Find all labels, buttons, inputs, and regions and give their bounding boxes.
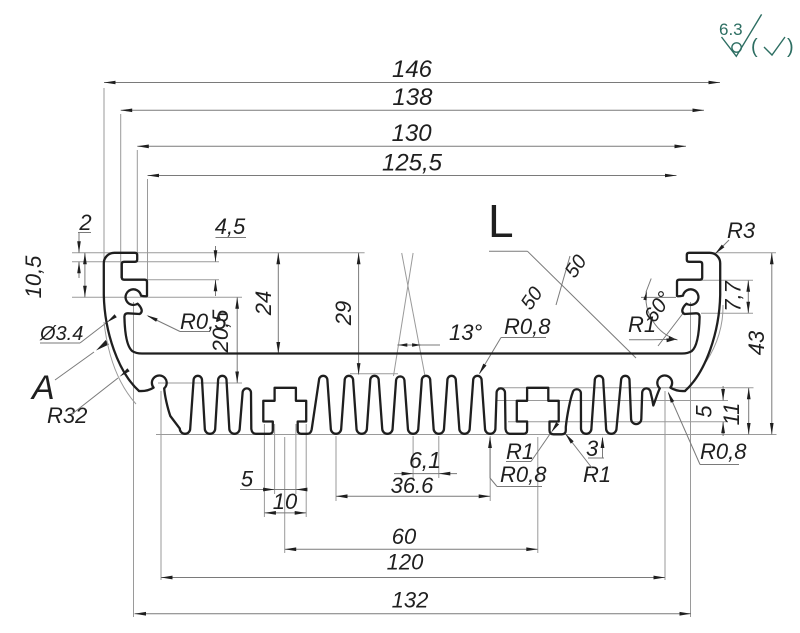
dimension 60 — [285, 524, 538, 551]
heatsink profile body (top plate, side walls, screw ports) — [104, 253, 720, 391]
dimension 20,5 — [208, 297, 239, 383]
svg-text:132: 132 — [392, 588, 429, 613]
dimension 132 — [135, 588, 692, 616]
svg-text:36.6: 36.6 — [391, 473, 435, 498]
svg-text:R0,8: R0,8 — [500, 462, 547, 487]
svg-text:6,1: 6,1 — [409, 447, 441, 473]
svg-text:24: 24 — [251, 291, 276, 316]
svg-text:125,5: 125,5 — [382, 150, 443, 177]
svg-text:R1: R1 — [628, 312, 656, 337]
svg-text:3: 3 — [586, 436, 599, 461]
dimension 10,5 — [21, 253, 87, 299]
label R32 — [47, 368, 130, 428]
svg-text:10,5: 10,5 — [21, 255, 46, 299]
thin arc R32 reference left — [104, 322, 136, 404]
svg-text:5: 5 — [241, 467, 254, 492]
dimension 125,5 — [148, 150, 677, 178]
dimension 5 right — [692, 386, 726, 436]
label 3 — [586, 436, 604, 461]
svg-text:5: 5 — [692, 405, 717, 418]
surface finish symbol 6.3 — [719, 14, 794, 58]
dimension 6,1 — [394, 447, 457, 476]
svg-text:146: 146 — [392, 56, 433, 83]
dimension 7,7 — [721, 280, 751, 313]
extension lines horizontal left — [72, 252, 365, 254]
svg-text:120: 120 — [387, 550, 424, 575]
svg-text:43: 43 — [744, 330, 769, 355]
label R1 foot right — [565, 433, 611, 487]
svg-text:2: 2 — [78, 210, 91, 235]
svg-text:Ø3.4: Ø3.4 — [39, 323, 83, 345]
label L with 50/50 leader — [488, 195, 636, 358]
svg-text:L: L — [488, 195, 514, 247]
svg-text:60: 60 — [392, 524, 417, 549]
svg-text:A: A — [30, 369, 55, 407]
heatsink fins serpentine with T-slot bosses — [139, 375, 685, 434]
svg-text:): ) — [787, 36, 794, 58]
dimension 120 — [161, 550, 665, 580]
dimension 10 — [264, 489, 306, 515]
label A (view arrow) — [30, 340, 109, 407]
thin arc R32 reference right — [706, 305, 723, 362]
svg-text:138: 138 — [392, 84, 433, 111]
extension lines horizontal right — [687, 252, 776, 254]
svg-text:R0,8: R0,8 — [504, 314, 551, 339]
svg-text:130: 130 — [392, 120, 433, 147]
dimension 11 — [719, 388, 751, 435]
label R0,8 bottom center — [488, 437, 547, 488]
dimension 29 — [331, 253, 361, 375]
dimension 5 bottom — [240, 467, 307, 492]
svg-text:13°: 13° — [449, 320, 482, 345]
dimension 43 — [744, 253, 774, 435]
svg-text:R1: R1 — [506, 439, 534, 464]
svg-text:29: 29 — [331, 301, 356, 326]
svg-text:R3: R3 — [727, 218, 756, 243]
extension lines bottom verticals — [133, 302, 135, 617]
svg-text:4,5: 4,5 — [215, 214, 246, 239]
dimension 146 — [104, 56, 720, 84]
svg-text:R1: R1 — [583, 462, 611, 487]
label R1 foot left — [506, 422, 559, 464]
dimension 36.6 — [336, 473, 490, 498]
label R0,5 — [147, 309, 228, 334]
dimension 2 — [77, 210, 91, 278]
label R0,8 mid — [479, 314, 551, 374]
label 13deg — [394, 253, 483, 376]
svg-text:7,7: 7,7 — [721, 280, 746, 311]
label R0,8 right — [668, 391, 747, 464]
extension lines top — [103, 88, 105, 260]
svg-text:(: ( — [751, 36, 758, 58]
svg-text:10: 10 — [273, 489, 298, 514]
svg-text:R0,5: R0,5 — [180, 309, 227, 334]
dimension 60deg — [640, 279, 684, 347]
dimension 4,5 — [214, 214, 246, 296]
dimension 138 — [121, 84, 704, 112]
dimension 130 — [137, 120, 686, 148]
label diameter 3.4 — [39, 314, 117, 345]
dimension 24 — [251, 253, 280, 354]
svg-text:R0,8: R0,8 — [700, 439, 747, 464]
svg-text:6.3: 6.3 — [719, 20, 743, 39]
label R3 — [715, 218, 756, 254]
label R1 right port — [628, 312, 677, 342]
